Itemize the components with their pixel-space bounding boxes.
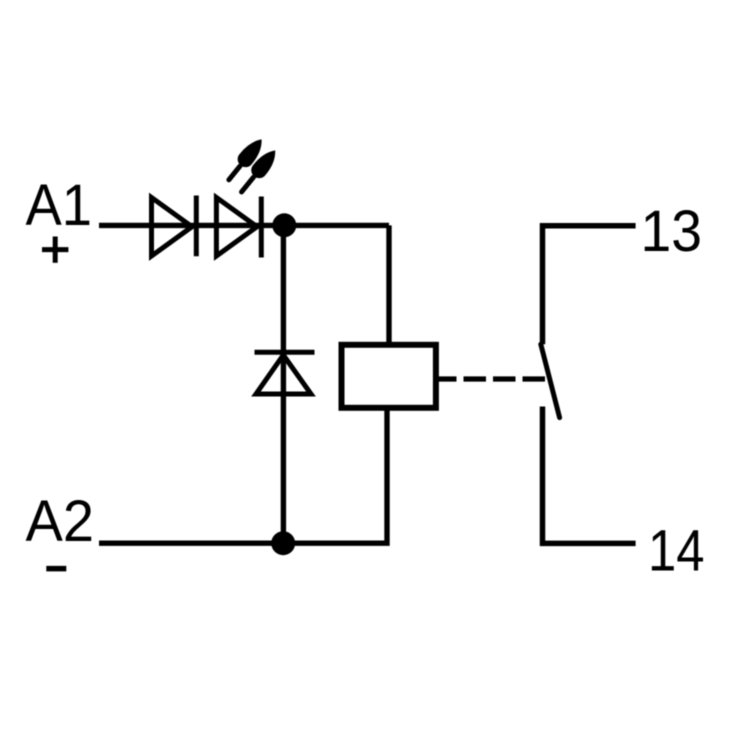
svg-text:13: 13 <box>641 199 703 264</box>
dashed actuator link <box>434 376 551 381</box>
node junction bottom A2 <box>271 531 295 555</box>
LED D2 <box>216 197 261 258</box>
wire A1 lead through diodes to coil branch <box>99 223 389 228</box>
svg-text:A1: A1 <box>26 173 93 238</box>
LED emission arrow 1 <box>223 134 268 184</box>
wire top branch down to coil <box>386 225 391 344</box>
wire terminal 14 elbow <box>543 407 636 544</box>
diode D1 <box>152 196 197 257</box>
svg-text:14: 14 <box>648 519 705 584</box>
polarity minus sign <box>46 566 66 572</box>
freewheeling diode D3 <box>255 352 315 394</box>
polarity plus sign <box>42 237 68 263</box>
wire coil bottom to A2 rail <box>99 408 387 543</box>
switch blade contact <box>541 344 560 417</box>
svg-text:A2: A2 <box>26 489 95 554</box>
relay coil K1 <box>342 345 436 408</box>
node junction top A1 <box>272 213 296 237</box>
LED emission arrow 2 <box>235 145 281 197</box>
wire freewheel branch vertical <box>281 225 286 543</box>
wire terminal 13 elbow <box>543 226 636 344</box>
